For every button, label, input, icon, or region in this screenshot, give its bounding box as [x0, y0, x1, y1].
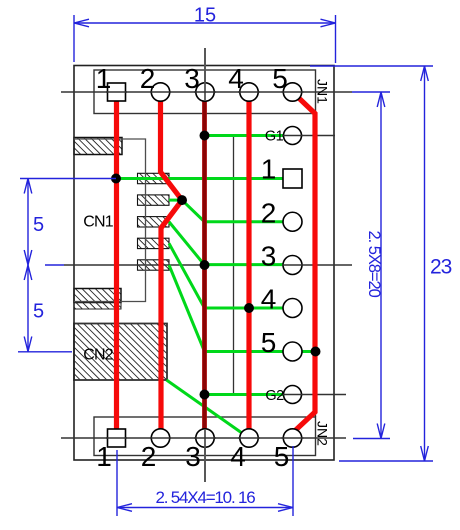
connector CN2 body (hatched): [74, 324, 167, 381]
svg-text:2: 2: [141, 441, 157, 472]
junction CN1 pin1: [111, 174, 121, 184]
pad right-3: [283, 256, 302, 275]
G1 row line: [234, 135, 336, 137]
dimension 15: [74, 15, 336, 63]
dimension 2.5X8=20: [352, 92, 390, 439]
junction CN1 pin2: [177, 195, 187, 205]
pad JN2-2: [151, 429, 169, 447]
center line over pads: [204, 48, 206, 101]
pad JN1-1 (square): [108, 83, 126, 101]
svg-text:5: 5: [272, 63, 288, 94]
pad right-2: [283, 212, 302, 231]
CN1 pin pad 4: [138, 238, 170, 248]
pad JN2-4: [240, 429, 258, 447]
junction row5: [311, 347, 321, 357]
connector JN2 outline: [94, 417, 316, 456]
pad right-4: [283, 299, 302, 318]
svg-text:5: 5: [261, 327, 277, 358]
pad JN2-3: [196, 429, 214, 447]
trace pin2 diagonal (green): [182, 200, 205, 222]
pad JN2-1 (square): [108, 429, 126, 447]
junction row3: [200, 260, 210, 270]
right connector outline left edge: [233, 136, 235, 395]
trace pin5 diagonal (green): [169, 265, 205, 352]
G1 line over pad: [282, 135, 303, 137]
svg-text:JN1: JN1: [315, 79, 331, 104]
svg-text:G2: G2: [265, 388, 284, 404]
row3 line over pad: [282, 264, 303, 266]
connector CN1 pad (lower-left hatched): [74, 289, 121, 303]
svg-text:23: 23: [430, 256, 452, 279]
svg-text:15: 15: [194, 5, 216, 27]
svg-text:4: 4: [261, 284, 277, 315]
svg-text:JN2: JN2: [315, 421, 331, 446]
trace row5 (green): [205, 350, 316, 353]
svg-text:CN2: CN2: [83, 347, 114, 364]
pad JN1-2: [151, 83, 169, 101]
svg-text:1: 1: [96, 63, 112, 94]
svg-text:5: 5: [33, 214, 44, 236]
CN1 body outline: [74, 139, 146, 302]
CN1 pin pad 5: [138, 260, 170, 270]
trace row1 (green): [116, 177, 293, 180]
svg-text:1: 1: [261, 154, 277, 185]
svg-text:4: 4: [230, 441, 246, 472]
center line row JN1: [61, 91, 352, 93]
trace CN1 pin2 stub (green): [169, 199, 182, 202]
board outline: [74, 66, 334, 461]
G2 row line: [234, 394, 347, 396]
center line row 3: [64, 264, 352, 266]
junction G1: [200, 131, 210, 141]
pad G2: [284, 386, 302, 404]
dimension 2.54X4=10.16: [117, 446, 293, 516]
svg-text:3: 3: [185, 441, 201, 472]
CN1 pin pad 2: [138, 195, 170, 205]
trace pad3 net (dark red vertical): [202, 92, 207, 438]
pad right-5: [283, 342, 302, 361]
connector JN1 outline: [94, 70, 316, 114]
CN1 pin pad 3: [138, 217, 170, 227]
center line vertical: [204, 48, 206, 482]
pad right-1 (square): [283, 169, 302, 188]
svg-text:2. 5X8=20: 2. 5X8=20: [365, 231, 383, 298]
trace pin3 diagonal (green): [169, 222, 205, 265]
trace pad1 net (red vertical): [114, 92, 119, 438]
row line JN1 over pads: [106, 91, 304, 93]
svg-text:G1: G1: [265, 129, 284, 145]
trace pad2 net (red with jog to CN1 pin2): [161, 92, 183, 438]
junction G2: [200, 390, 210, 400]
pad JN2-5: [283, 429, 301, 447]
junction row4: [244, 303, 254, 313]
trace row2 (green): [205, 220, 293, 223]
trace pin4 diagonal (green): [169, 243, 205, 308]
svg-text:4: 4: [228, 63, 244, 94]
trace CN2 diagonal (green): [167, 380, 250, 438]
pad JN1-4: [240, 83, 258, 101]
svg-text:5: 5: [33, 301, 44, 323]
trace G2 (green): [205, 393, 293, 396]
svg-text:2. 54X4=10. 16: 2. 54X4=10. 16: [156, 488, 256, 507]
svg-text:3: 3: [261, 241, 277, 272]
G2 line over pad: [282, 394, 303, 396]
trace G1 (green): [205, 134, 293, 137]
svg-text:CN1: CN1: [83, 214, 114, 231]
trace row4 (green): [205, 307, 293, 310]
trace row3 (green): [205, 263, 293, 266]
dimension 23: [310, 66, 433, 461]
svg-text:2: 2: [140, 63, 156, 94]
svg-text:1: 1: [96, 441, 112, 472]
connector CN1 pad (top-left hatched): [74, 138, 122, 155]
trace pad4 net (red vertical): [246, 92, 251, 438]
svg-text:5: 5: [274, 441, 290, 472]
trace pad5 net (red with bends): [293, 92, 316, 433]
center line row JN2: [61, 437, 346, 439]
pad JN1-3: [196, 83, 214, 101]
svg-text:2: 2: [261, 198, 277, 229]
pad JN1-5: [283, 83, 301, 101]
connector CN1 pad strip: [74, 303, 121, 310]
right connector outline right edge: [315, 114, 317, 418]
svg-text:3: 3: [184, 63, 200, 94]
dimension 5 upper: [18, 179, 116, 352]
pad G1: [284, 127, 302, 145]
CN1 pin pad 1: [138, 173, 170, 183]
row line JN2 over pads: [106, 437, 304, 439]
